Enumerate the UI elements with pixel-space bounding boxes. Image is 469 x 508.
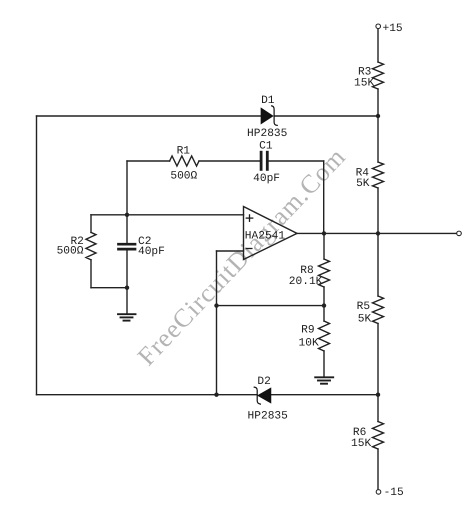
terminal output xyxy=(457,231,462,236)
wire R1 to C1 xyxy=(199,160,260,162)
resistor R2 zigzag xyxy=(86,232,96,259)
wire noninverting input y=214.8 xyxy=(91,214,244,216)
op-amp U1 triangle xyxy=(244,207,298,260)
wire R3 to node xyxy=(377,89,379,116)
resistor R1 zigzag xyxy=(170,156,199,166)
diode D2 triangle xyxy=(258,389,270,403)
junction node output-R8 xyxy=(322,231,326,235)
svg-text:15K: 15K xyxy=(354,78,374,90)
svg-text:500Ω: 500Ω xyxy=(170,170,197,182)
svg-text:HA2541: HA2541 xyxy=(245,231,286,243)
resistor R6 zigzag xyxy=(373,422,384,449)
wire bottom node to R6 xyxy=(377,395,379,422)
svg-text:HP2835: HP2835 xyxy=(248,410,288,422)
diode D2 cathode xyxy=(254,387,260,404)
svg-text:15K: 15K xyxy=(351,438,371,450)
resistor R3 zigzag xyxy=(373,62,384,89)
wire corner down to output node x=323.7 xyxy=(323,161,325,233)
capacitor C1 plates xyxy=(261,152,267,169)
ground 1 under C2 xyxy=(118,314,136,320)
wire +15 terminal to R3 xyxy=(377,29,379,62)
terminal -15 xyxy=(376,490,381,495)
wire node to R9 xyxy=(323,306,325,321)
svg-text:20.1K: 20.1K xyxy=(289,276,323,288)
wire op-amp output xyxy=(297,232,456,234)
svg-text:+15: +15 xyxy=(383,23,403,35)
wire R6 to -15 terminal xyxy=(377,449,379,489)
wire R2 top stub xyxy=(90,215,92,233)
resistor R5 zigzag xyxy=(373,296,384,323)
wire R9 to ground xyxy=(323,351,325,377)
svg-text:D1: D1 xyxy=(261,95,275,107)
svg-text:5K: 5K xyxy=(358,314,372,326)
wire R8-R9 node horizontal y=305.6 xyxy=(217,305,325,307)
junction node R8-R9 xyxy=(322,303,326,307)
ground 2 under R9 xyxy=(315,377,333,383)
wire R8 to node xyxy=(323,287,325,306)
wire D2 anode to rail xyxy=(271,394,378,396)
wire R1 left branch vertical x=127 xyxy=(126,161,128,215)
svg-text:D2: D2 xyxy=(257,376,270,388)
junction node output-rail xyxy=(376,231,380,235)
wire left vertical x=36.5 xyxy=(36,116,38,395)
svg-text:10K: 10K xyxy=(299,338,319,350)
junction node bottom-rail xyxy=(376,393,380,397)
op-amp plus sign xyxy=(246,215,252,221)
wire C1 to corner xyxy=(269,160,324,162)
resistor R9 zigzag xyxy=(319,321,330,351)
svg-text:HP2835: HP2835 xyxy=(247,128,287,140)
wire top loop y=116 xyxy=(37,115,262,117)
junction node feedback-bottom xyxy=(214,393,218,397)
wire output node to R8 xyxy=(323,233,325,259)
wire R1 left y=161 xyxy=(127,160,170,162)
wire D1 cathode to rail xyxy=(274,115,378,117)
wire bottom loop y=394.7 left of D2 xyxy=(37,394,258,396)
capacitor C2 plates xyxy=(119,244,136,249)
junction node feedback-R8R9 xyxy=(214,303,218,307)
wire inverting input y=251 xyxy=(217,250,244,252)
diode D1 triangle xyxy=(261,109,272,124)
wire C2 top stem xyxy=(126,215,128,243)
svg-text:R5: R5 xyxy=(357,301,370,313)
svg-text:500Ω: 500Ω xyxy=(57,246,84,258)
junction node R2-C2 xyxy=(125,286,129,290)
op-amp minus sign xyxy=(246,248,252,250)
wire R4 to output node xyxy=(377,188,379,233)
junction node D1-rail xyxy=(376,114,380,118)
svg-text:5K: 5K xyxy=(356,178,370,190)
diode D1 cathode xyxy=(272,106,278,126)
svg-text:R9: R9 xyxy=(301,324,314,336)
wire R2 bottom to C2 node xyxy=(91,287,127,289)
wire output node to R5 xyxy=(377,233,379,296)
svg-text:-15: -15 xyxy=(384,487,404,499)
resistor R8 zigzag xyxy=(319,259,330,287)
wire inverting feedback vertical x=216.5 xyxy=(216,251,218,395)
junction node R1 branch on + input xyxy=(125,213,129,217)
svg-text:C1: C1 xyxy=(259,140,273,152)
svg-text:40pF: 40pF xyxy=(138,246,165,258)
wire C2 bottom stem xyxy=(126,251,128,288)
resistor R4 zigzag xyxy=(373,162,384,188)
svg-text:R1: R1 xyxy=(177,146,191,158)
terminal +15 xyxy=(376,24,381,29)
wire R5 to bottom node xyxy=(377,324,379,395)
wire node to R4 xyxy=(377,116,379,162)
wire R2 bottom stub xyxy=(90,260,92,288)
svg-text:40pF: 40pF xyxy=(253,173,280,185)
wire C2 node to ground xyxy=(126,288,128,314)
